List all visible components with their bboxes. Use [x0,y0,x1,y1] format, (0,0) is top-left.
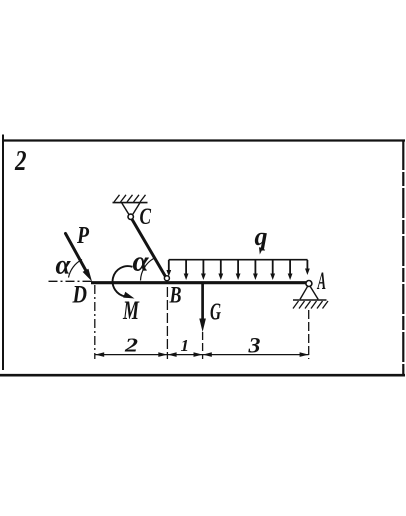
svg-text:α: α [133,246,150,278]
svg-text:q: q [255,222,268,251]
extension line below A (dashed) [308,310,310,359]
centerline left of D (dash-dot) [49,280,93,282]
distributed load arrows [166,260,309,280]
svg-text:A: A [316,268,326,295]
support C triangle [122,203,140,215]
svg-text:M: M [122,296,139,325]
svg-text:1: 1 [181,336,190,355]
svg-text:C: C [140,204,152,229]
pin at B [164,276,169,281]
support A pin circle [306,281,312,287]
svg-text:D: D [72,282,87,309]
frame left border [2,135,4,371]
support A triangle [300,286,318,299]
label q with arrow tail [255,222,268,255]
svg-text:α: α [56,250,72,280]
svg-text:2: 2 [14,146,26,177]
svg-text:2: 2 [124,336,139,357]
support A ground line [293,299,327,301]
dimension line [95,354,308,356]
pin at C [128,214,133,219]
svg-text:G: G [210,300,221,326]
support C hatching [114,195,146,202]
angle arc alpha at D [69,260,83,278]
svg-text:P: P [76,223,89,249]
extension line below G (dashed) [202,332,204,359]
extension line below D (dash-dot) [94,285,96,359]
dimension arrows at G tick [194,352,203,357]
distributed load top line [169,259,308,261]
frame bottom border [0,374,405,377]
dimension arrows at B tick [158,352,167,357]
svg-text:B: B [169,283,182,308]
support A hatching [293,301,328,309]
dimension arrow right end [300,352,309,357]
rod BC [132,219,166,277]
support C ceiling line [113,202,148,204]
frame right border [402,140,404,376]
beam DA [91,281,306,284]
extension line below B (dashed) [166,287,168,359]
force G [199,284,206,333]
svg-text:3: 3 [247,333,260,358]
frame top border [2,139,405,141]
dimension arrow left end [95,352,104,357]
moment M arc [113,266,135,298]
angle arc alpha at B [141,259,154,281]
force P [66,234,93,282]
